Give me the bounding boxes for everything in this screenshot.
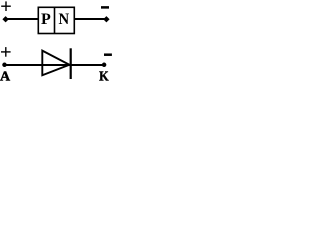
svg-text:K: K bbox=[99, 68, 109, 84]
svg-text:P: P bbox=[41, 11, 51, 28]
svg-text:A: A bbox=[0, 70, 11, 85]
svg-text:N: N bbox=[58, 10, 69, 28]
